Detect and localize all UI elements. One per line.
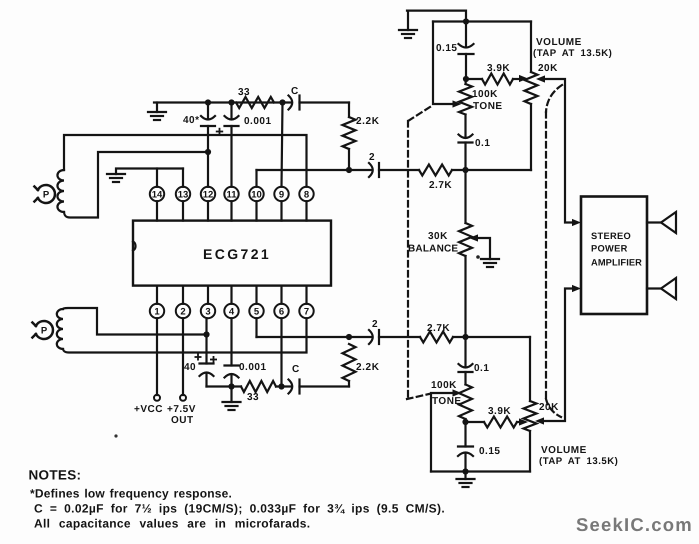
svg-text:0.1: 0.1 <box>475 138 490 149</box>
svg-text:14: 14 <box>152 189 163 200</box>
svg-text:(TAP AT 13.5K): (TAP AT 13.5K) <box>533 48 612 59</box>
svg-text:BALANCE: BALANCE <box>408 244 458 255</box>
svg-text:(TAP AT 13.5K): (TAP AT 13.5K) <box>539 456 618 467</box>
svg-text:AMPLIFIER: AMPLIFIER <box>591 258 642 268</box>
svg-text:1: 1 <box>154 306 160 317</box>
svg-text:POWER: POWER <box>591 244 628 254</box>
svg-text:100K: 100K <box>472 89 498 100</box>
svg-text:12: 12 <box>203 189 214 200</box>
svg-text:0.001: 0.001 <box>244 116 272 127</box>
svg-text:TONE: TONE <box>432 396 462 407</box>
svg-text:11: 11 <box>226 189 237 200</box>
svg-text:33: 33 <box>247 392 259 403</box>
svg-text:+7.5V: +7.5V <box>167 404 196 415</box>
svg-text:C = 0.02µF for 7½ ips (19CM/S): C = 0.02µF for 7½ ips (19CM/S); 0.033µF … <box>34 502 445 516</box>
svg-text:All capacitance values are in: All capacitance values are in microfarad… <box>34 517 310 531</box>
svg-text:0.001: 0.001 <box>239 362 267 373</box>
svg-text:40: 40 <box>184 362 196 373</box>
svg-text:20K: 20K <box>538 63 558 74</box>
svg-text:3.9K: 3.9K <box>488 406 511 417</box>
svg-text:40*: 40* <box>183 115 200 126</box>
svg-text:3.9K: 3.9K <box>487 63 510 74</box>
svg-text:OUT: OUT <box>171 415 194 426</box>
svg-text:2.7K: 2.7K <box>429 180 452 191</box>
svg-text:SeekIC.com: SeekIC.com <box>576 514 693 535</box>
svg-text:P: P <box>41 325 48 336</box>
svg-text:C: C <box>291 86 299 97</box>
svg-text:+VCC: +VCC <box>134 404 163 415</box>
svg-text:*Defines low frequency respons: *Defines low frequency response. <box>30 487 232 501</box>
svg-text:100K: 100K <box>431 380 457 391</box>
svg-text:TONE: TONE <box>473 101 503 112</box>
svg-text:7: 7 <box>304 306 309 317</box>
svg-text:VOLUME: VOLUME <box>536 37 582 48</box>
svg-text:2: 2 <box>369 152 375 163</box>
svg-text:0.15: 0.15 <box>436 43 457 54</box>
svg-text:C: C <box>292 364 300 375</box>
svg-text:2.7K: 2.7K <box>427 323 450 334</box>
svg-text:4: 4 <box>229 306 235 317</box>
svg-text:0.1: 0.1 <box>474 363 489 374</box>
svg-text:0.15: 0.15 <box>479 446 500 457</box>
svg-text:30K: 30K <box>428 231 448 242</box>
svg-text:2: 2 <box>180 306 185 317</box>
svg-text:ECG721: ECG721 <box>203 246 271 262</box>
svg-text:8: 8 <box>304 189 309 200</box>
svg-text:10: 10 <box>251 189 262 200</box>
svg-text:5: 5 <box>254 306 260 317</box>
svg-text:6: 6 <box>279 306 284 317</box>
svg-text:STEREO: STEREO <box>591 231 631 241</box>
svg-text:13: 13 <box>178 189 189 200</box>
svg-text:2.2K: 2.2K <box>356 116 380 127</box>
svg-text:NOTES:: NOTES: <box>29 468 82 483</box>
svg-text:9: 9 <box>279 189 284 200</box>
svg-text:3: 3 <box>205 306 210 317</box>
svg-text:VOLUME: VOLUME <box>541 445 587 456</box>
svg-text:P: P <box>43 189 50 200</box>
svg-text:33: 33 <box>238 87 250 98</box>
svg-text:2: 2 <box>372 319 378 330</box>
svg-text:2.2K: 2.2K <box>356 362 380 373</box>
